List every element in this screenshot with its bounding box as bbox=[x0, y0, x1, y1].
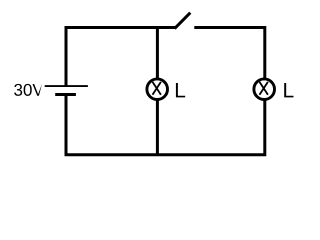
wire: right lamp bottom, down right side, bottom-right corner, bottom wire, bottom-left corner, up to battery - plate bbox=[66, 96, 265, 155]
lamp L2 circle (right) bbox=[254, 79, 275, 100]
wire: middle branch top (T junction on top wire down to middle lamp) bbox=[156, 26, 159, 79]
switch S1 (open blade) bbox=[175, 13, 191, 29]
lamp L1 cross stroke 2 bbox=[153, 82, 161, 95]
wire: battery + plate up left side, top-left corner, top wire to switch pivot bbox=[66, 28, 176, 87]
battery B1 short plate (-) bbox=[55, 93, 76, 96]
battery B1 long plate (+) bbox=[45, 85, 88, 87]
label L (middle lamp) bbox=[176, 83, 185, 97]
lamp L1 circle (middle) bbox=[147, 79, 168, 100]
wire: switch right terminal along top to top-right corner, down to right lamp top bbox=[194, 28, 264, 79]
wire: middle branch bottom (middle lamp down to T junction on bottom wire) bbox=[156, 100, 159, 156]
lamp L2 cross stroke 2 bbox=[260, 82, 268, 95]
value label 30V bbox=[14, 84, 42, 96]
label L (right lamp) bbox=[284, 83, 293, 97]
lamp L2 cross stroke 1 bbox=[260, 82, 268, 95]
lamp L1 cross stroke 1 bbox=[153, 82, 161, 95]
